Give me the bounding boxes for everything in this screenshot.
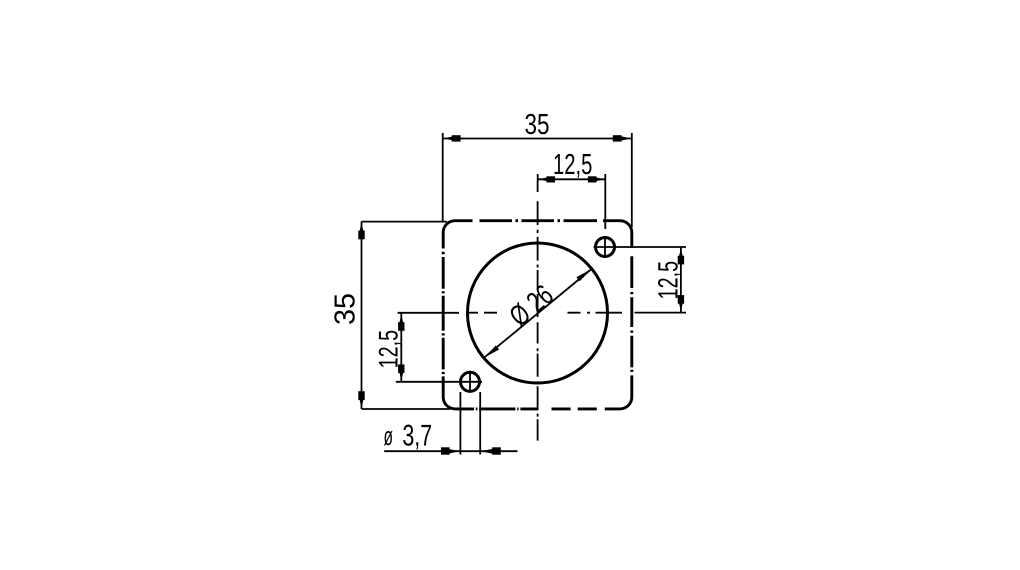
wire: top extension line (from top-right hole): [618, 246, 686, 248]
wire: bottom extension line: [362, 408, 451, 410]
svg-text:12,5: 12,5: [374, 330, 404, 369]
svg-text:Ø 26: Ø 26: [504, 279, 560, 333]
svg-text:3,7: 3,7: [402, 420, 432, 453]
cross mark of top-right hole: [594, 236, 619, 258]
plate corner arcs: [443, 221, 632, 409]
plate outline: bottom edge: [455, 407, 620, 410]
arrow lower-left of Ø26: [484, 346, 499, 358]
plate outline: right edge: [630, 233, 633, 398]
wire: bottom extension line (circle center height): [635, 312, 687, 314]
wire: left extension line (to circle center): [537, 174, 539, 181]
dimension: left 35: [362, 222, 451, 409]
arrow left of top 35: [444, 136, 454, 140]
horizontal centerline of main circle: [468, 312, 622, 314]
dimension: top 12,5: [538, 174, 606, 229]
arrow right of top 12,5: [595, 177, 604, 181]
wire: bottom extension line (through bottom-left hole): [396, 381, 482, 383]
svg-text:12,5: 12,5: [553, 149, 592, 181]
wire: dimension line: [680, 247, 682, 313]
wire: right extension line: [631, 133, 633, 227]
wire: dimension line: [400, 313, 402, 381]
mounting hole top-right Ø3.7: [596, 238, 615, 257]
arrow bottom of left 35: [359, 399, 363, 409]
arrow upper-right of Ø26: [576, 269, 591, 281]
cross mark of bottom-left hole: [469, 371, 471, 393]
arrow top of left 35: [359, 223, 363, 233]
wire: right extension line (hole right edge): [479, 392, 481, 455]
arrow top of right 12,5: [679, 248, 683, 257]
arrow right of top 35: [621, 136, 631, 140]
mounting hole bottom-left Ø3.7: [461, 372, 480, 391]
dimension: top 35: [443, 133, 632, 227]
wire: left extension line (hole left edge): [459, 392, 461, 455]
svg-text:35: 35: [525, 109, 550, 141]
plate outline: left edge: [442, 233, 445, 398]
svg-text:ø: ø: [384, 421, 394, 451]
arrow left of ø3,7 (pointing right): [445, 448, 460, 454]
arrow left of top 12,5: [539, 177, 548, 181]
wire: diameter line: [484, 269, 592, 358]
wire: top extension line: [362, 221, 448, 223]
arrow right of ø3,7 (pointing left): [480, 448, 495, 454]
wire: dimension line: [384, 450, 517, 452]
vertical centerline of main circle: [537, 181, 539, 441]
wire: dimension line: [443, 138, 632, 140]
wire: dimension line: [361, 222, 363, 409]
svg-text:35: 35: [330, 293, 362, 325]
dimension: left 12,5: [396, 313, 482, 382]
arrow bottom of left 12,5: [399, 371, 403, 380]
dimension: Ø26 diagonal: [484, 269, 592, 358]
wire: right extension line (to top-right hole): [604, 174, 606, 229]
svg-text:12,5: 12,5: [653, 261, 684, 300]
arrow bottom of right 12,5: [679, 302, 683, 311]
dimension: ø 3,7: [384, 392, 517, 455]
wire: top extension line (circle center height): [398, 312, 459, 314]
wire: left extension line: [442, 133, 444, 221]
wire: dimension line: [538, 178, 606, 180]
dimension: right 12,5: [618, 247, 686, 313]
main hole circle Ø26: [468, 243, 608, 383]
arrow top of left 12,5: [399, 315, 403, 324]
plate outline: top edge (phantom line dashes): [455, 219, 620, 222]
